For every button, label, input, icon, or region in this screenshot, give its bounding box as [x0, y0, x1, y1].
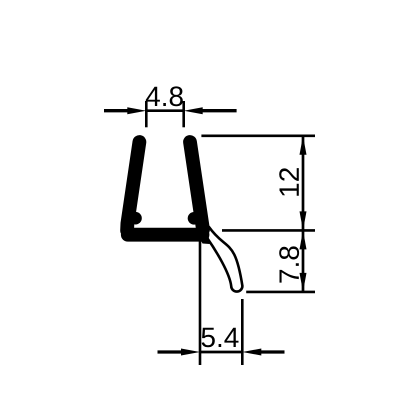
right arrow: [202, 109, 237, 112]
label 7.8: [279, 246, 299, 282]
dimension line: [302, 136, 305, 292]
lip root junction patch: [198, 220, 210, 244]
left inner nub: [129, 212, 142, 225]
dimension line: [146, 109, 183, 112]
extension line middle: [222, 229, 315, 232]
dimension 5.4 (bottom): [158, 240, 285, 365]
dimension line: [200, 351, 242, 354]
extension line right: [182, 101, 185, 127]
right leg: [190, 142, 203, 230]
extension line left: [199, 240, 202, 365]
dimension 4.8 (top): [104, 86, 237, 127]
extension line bottom: [246, 291, 315, 294]
seal profile U-channel body: [127, 142, 210, 244]
seal lip (curved flexible fin, outline): [207, 227, 243, 292]
right arrow: [260, 350, 284, 353]
down arrow: [300, 211, 307, 230]
extension line top: [201, 135, 315, 138]
label 4.8: [146, 86, 183, 106]
extension line left: [145, 101, 148, 127]
dimension 7.8 (right lower): [246, 230, 315, 292]
label 12: [279, 168, 299, 196]
left arrow: [158, 350, 183, 353]
label 5.4: [202, 328, 239, 348]
dimension 12 (right upper): [201, 136, 315, 292]
base bar: [128, 228, 203, 242]
extension line right: [241, 299, 244, 365]
up arrow: [300, 230, 307, 249]
up arrow: [300, 136, 307, 155]
left leg: [127, 142, 139, 231]
right inner nub: [188, 212, 201, 225]
down arrow: [300, 273, 307, 292]
left arrow: [104, 109, 129, 112]
